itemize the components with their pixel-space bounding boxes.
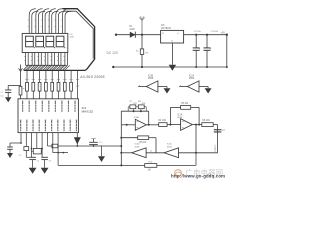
svg-text:LG: LG <box>70 34 73 36</box>
svg-text:-O: -O <box>177 33 180 35</box>
svg-text:4148: 4148 <box>129 28 135 31</box>
svg-text:4558: 4558 <box>177 117 183 119</box>
svg-text:IC3D: IC3D <box>135 144 140 146</box>
svg-text:R4 10K: R4 10K <box>158 120 166 122</box>
svg-text:http://www.go-gddq.com: http://www.go-gddq.com <box>171 173 225 178</box>
svg-text:IC3C: IC3C <box>167 144 172 146</box>
svg-text:IC3A: IC3A <box>134 116 139 119</box>
svg-text:AX-B15 2200E: AX-B15 2200E <box>80 75 105 79</box>
svg-text:47K: 47K <box>145 52 149 54</box>
svg-text:4558: 4558 <box>148 77 154 80</box>
svg-text:1mV/C: 1mV/C <box>214 144 217 152</box>
svg-text:R8 1M: R8 1M <box>140 142 147 144</box>
svg-text:10u: 10u <box>0 96 3 98</box>
svg-text:R6 10K: R6 10K <box>202 120 210 122</box>
svg-text:DC 12V: DC 12V <box>107 51 119 55</box>
svg-text:C2 10u: C2 10u <box>194 31 202 33</box>
svg-text:1M: 1M <box>148 170 151 172</box>
svg-text:+5V: +5V <box>221 32 226 35</box>
svg-text:R5 1M: R5 1M <box>181 103 188 105</box>
svg-text:IC1A: IC1A <box>177 113 183 116</box>
svg-text:MC78L05: MC78L05 <box>161 28 172 30</box>
svg-text:4558: 4558 <box>189 77 195 80</box>
svg-text:MAX132: MAX132 <box>82 110 94 114</box>
svg-text:C3 104: C3 104 <box>211 31 219 33</box>
